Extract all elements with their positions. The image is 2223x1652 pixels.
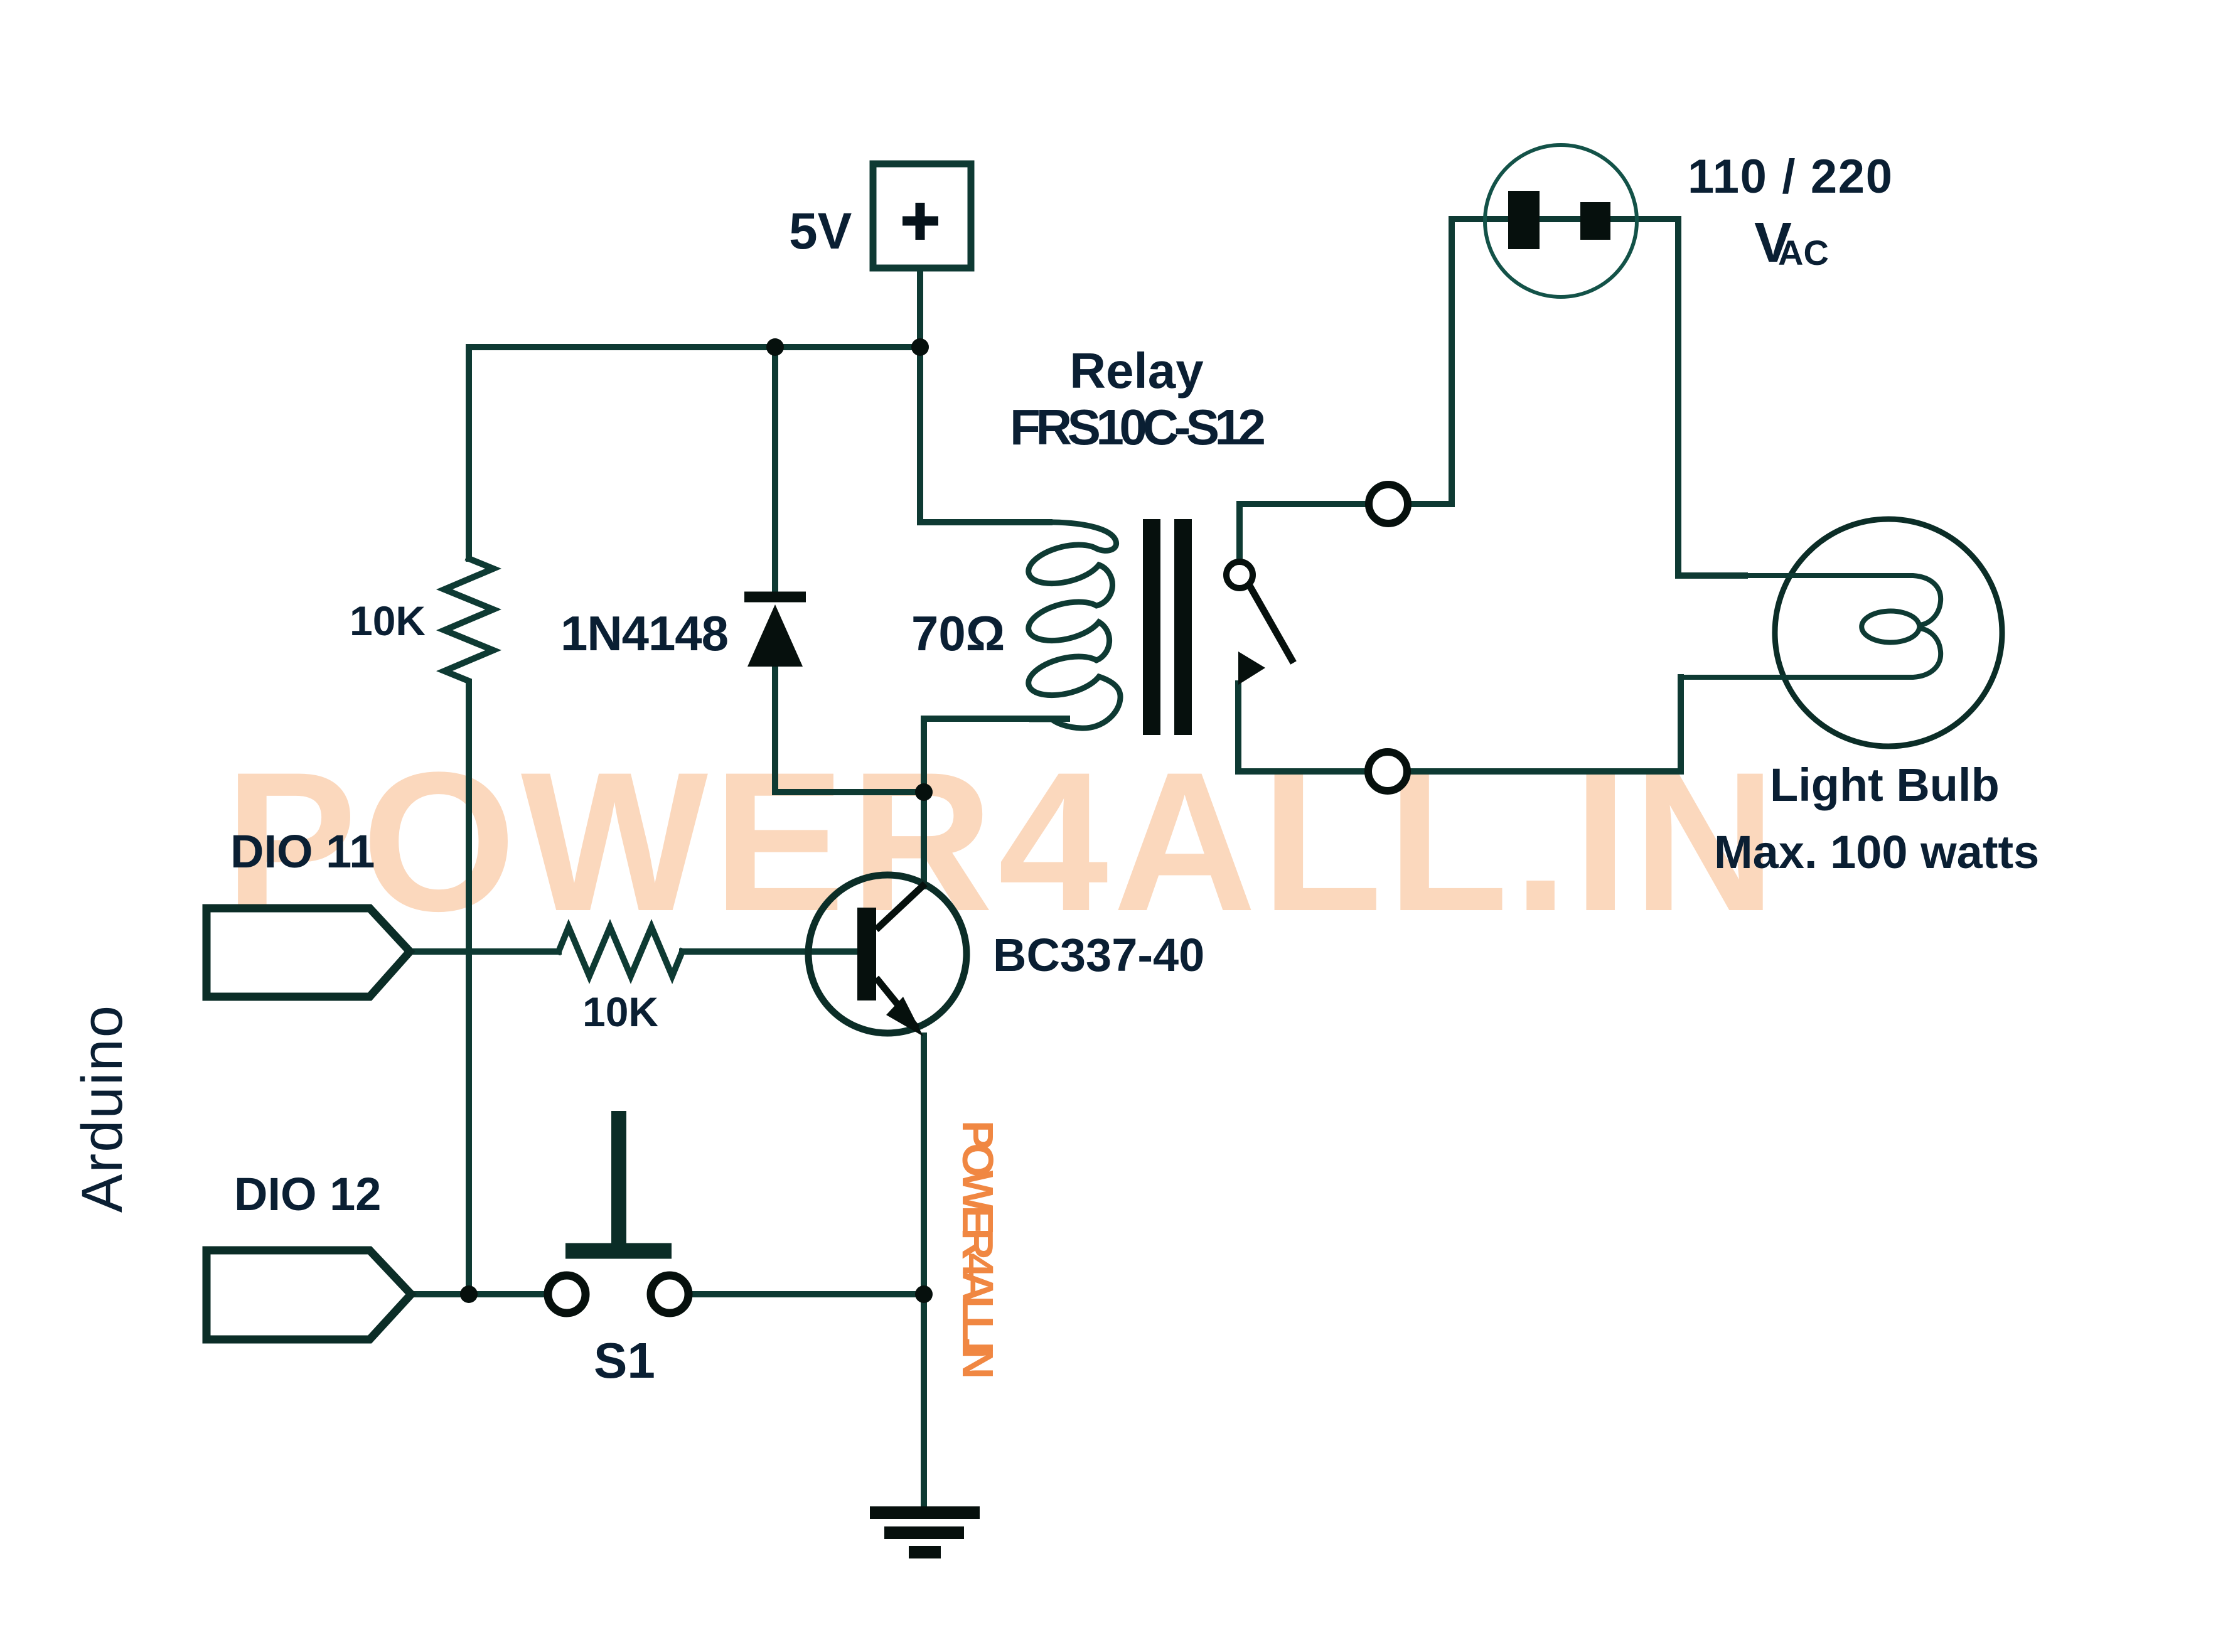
relay switch blade [1250, 586, 1294, 663]
ground [870, 1513, 980, 1552]
pushbutton S1 contacts [548, 1275, 586, 1313]
light bulb circle [1775, 519, 2002, 746]
transistor Q1 BC337-40 circle [808, 875, 967, 1033]
transistor emitter stroke [876, 978, 917, 1028]
wire plug horizontal [1452, 216, 1678, 222]
AC plug circle [1485, 145, 1637, 297]
pushbutton S1 actuator [565, 1243, 672, 1259]
svg-text:POWER4ALL.IN: POWER4ALL.IN [953, 1120, 1002, 1379]
svg-text:DIO 11: DIO 11 [230, 825, 375, 877]
svg-text:Relay: Relay [1069, 343, 1204, 399]
svg-text:AC: AC [1778, 233, 1829, 272]
power symbol 5V box [873, 164, 971, 268]
relay top contact circle [1369, 485, 1408, 523]
svg-text:1N4148: 1N4148 [560, 606, 729, 661]
svg-text:BC337-40: BC337-40 [993, 929, 1204, 981]
relay NO arrow [1238, 652, 1265, 685]
AC plug prong left [1508, 191, 1540, 249]
relay switch pivot contact [1226, 562, 1253, 588]
plus sign [903, 203, 938, 240]
svg-text:FRS10C-S12: FRS10C-S12 [1010, 399, 1266, 455]
svg-text:10K: 10K [582, 989, 658, 1035]
wire plug right down [1675, 219, 1681, 576]
svg-text:Arduino: Arduino [70, 1006, 134, 1213]
DIO 11 pin [206, 908, 410, 997]
wire to bulb top [1678, 572, 1745, 579]
wire DIO12 to switch [411, 1291, 547, 1297]
transistor emitter arrowhead [886, 997, 923, 1036]
wire emitter to ground [921, 1036, 927, 1506]
resistor R1 10K vertical [444, 559, 493, 690]
svg-text:POWER4ALL.IN: POWER4ALL.IN [225, 731, 1776, 952]
relay core bars [1143, 519, 1160, 735]
wire diode top [772, 347, 778, 593]
light bulb filament [1681, 576, 1941, 677]
svg-text:70Ω: 70Ω [911, 606, 1005, 661]
wire resistor to base [682, 948, 857, 955]
relay bottom contact circle [1368, 752, 1407, 791]
svg-text:Light Bulb: Light Bulb [1770, 759, 2000, 811]
diode D1 1N4148 [744, 592, 806, 603]
wire collector [921, 792, 927, 886]
svg-text:110 / 220: 110 / 220 [1688, 150, 1892, 203]
wire diode bottom [775, 667, 924, 792]
wire coil top [920, 519, 1049, 525]
junction node dots [766, 338, 784, 356]
wire top rail [469, 344, 920, 350]
AC plug prong right [1580, 202, 1610, 240]
wire relay bottom to bulb [1406, 677, 1681, 771]
wire relay NO contact [1238, 684, 1369, 771]
relay coil 70R [920, 522, 1120, 728]
svg-text:Max. 100 watts: Max. 100 watts [1714, 826, 2039, 878]
wire 5V vertical [917, 269, 923, 522]
wire switch to emitter node [689, 1291, 924, 1297]
wire coil bottom [924, 719, 1067, 792]
svg-text:DIO 12: DIO 12 [234, 1168, 381, 1220]
wire DIO11 to resistor [410, 948, 559, 955]
DIO 12 pin [206, 1250, 411, 1339]
resistor R2 10K horizontal [559, 927, 682, 976]
wire relay top contact to plug [1407, 219, 1452, 504]
transistor base bar [857, 908, 876, 1000]
svg-text:10K: 10K [350, 598, 426, 644]
svg-text:S1: S1 [594, 1333, 655, 1388]
transistor collector stroke [876, 884, 925, 930]
svg-text:5V: 5V [789, 203, 852, 260]
wire pullup vertical lower [466, 690, 472, 1294]
wire pullup vertical upper [466, 347, 472, 559]
wire relay common top [1240, 504, 1369, 560]
